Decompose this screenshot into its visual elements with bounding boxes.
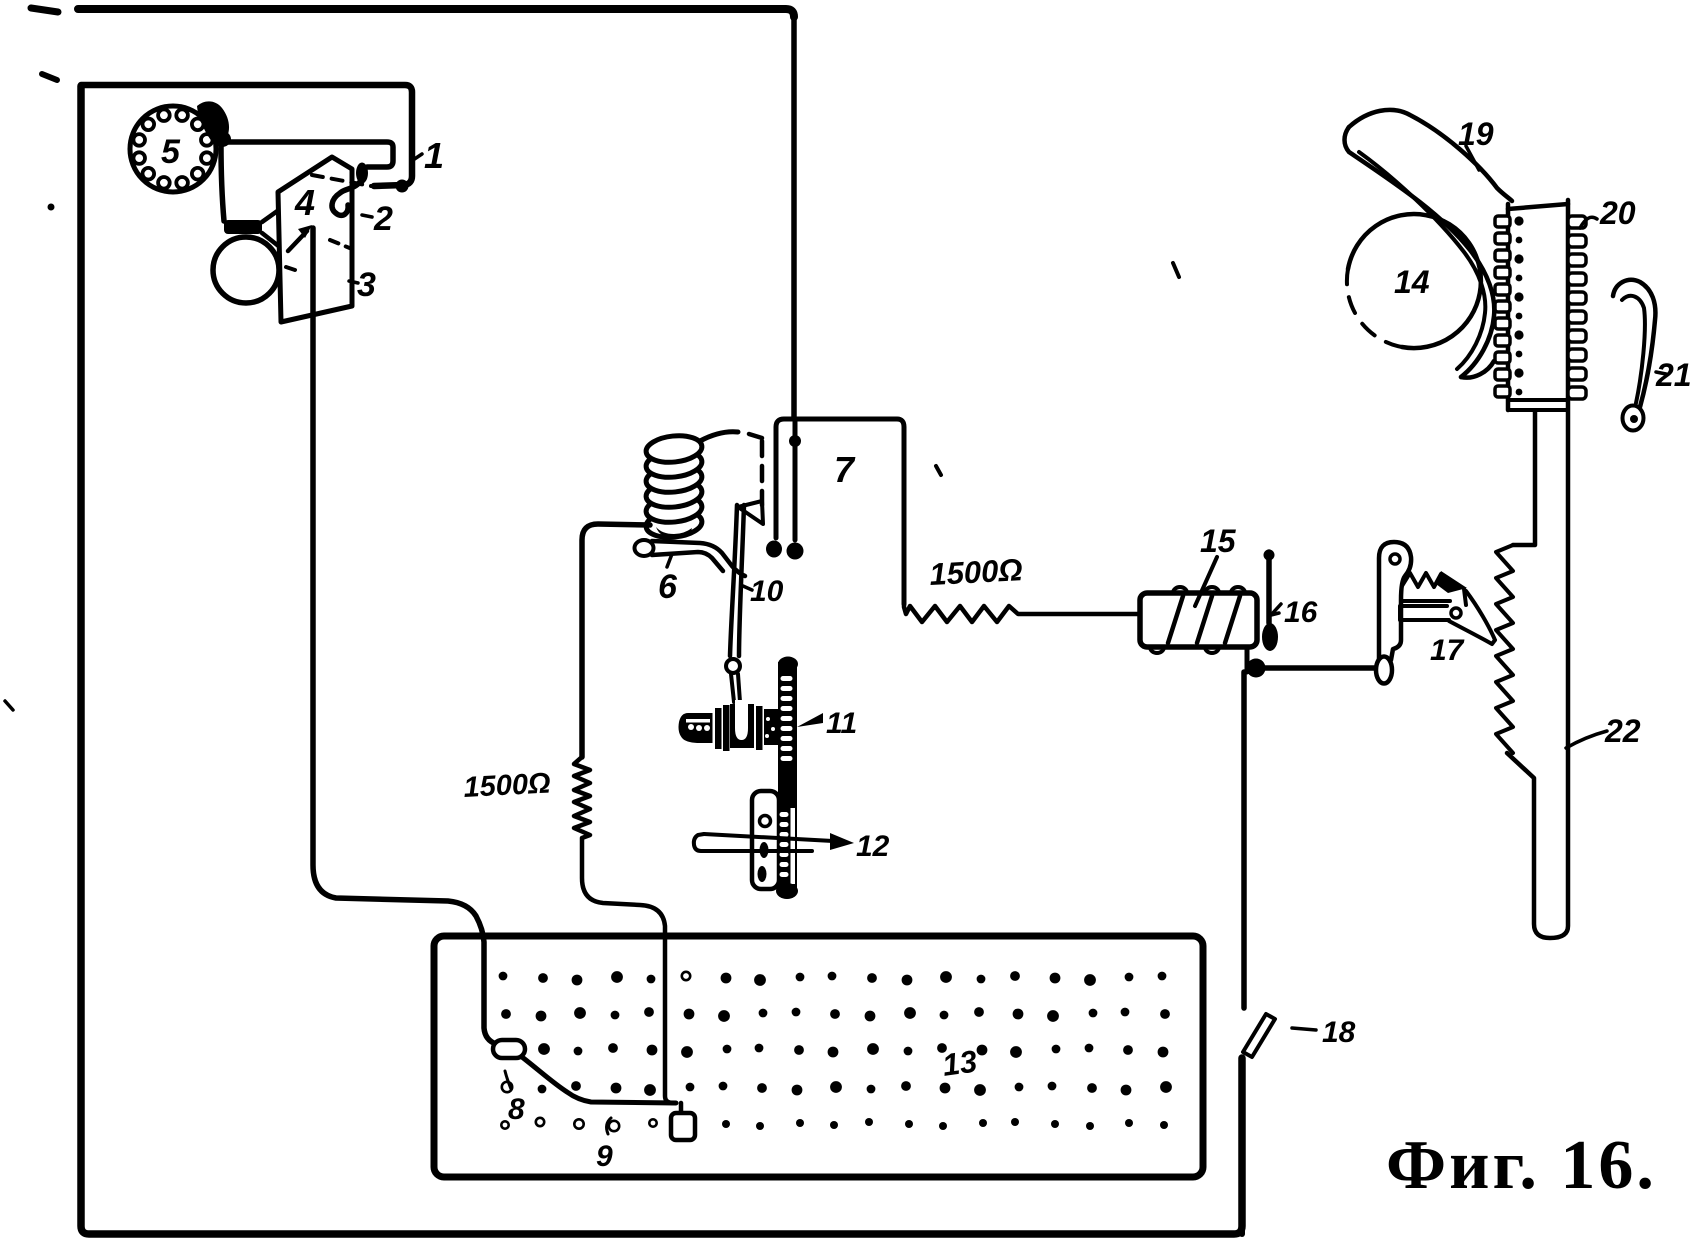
flag 18 xyxy=(1243,1014,1275,1057)
bar 12 lower line xyxy=(704,849,812,853)
svg-text:7: 7 xyxy=(834,449,856,490)
lever 17 lobe xyxy=(1379,542,1411,660)
svg-text:13: 13 xyxy=(940,1043,979,1082)
svg-text:16: 16 xyxy=(1284,596,1318,629)
speck near roll xyxy=(1173,263,1179,277)
wheel 5 rim xyxy=(130,106,216,192)
speck left dot xyxy=(48,204,55,211)
node terminal dot upper xyxy=(396,180,409,193)
node dot on stem xyxy=(789,435,801,447)
coil 15 windings xyxy=(1168,596,1240,643)
pawl 21 inner xyxy=(1622,296,1645,403)
coil 6 loops xyxy=(645,508,703,540)
svg-text:1500Ω: 1500Ω xyxy=(929,552,1024,592)
leader 11 arrow xyxy=(797,713,823,727)
hook 19 inner edge xyxy=(1359,152,1485,369)
shaft dark block speckles xyxy=(766,717,770,721)
leader 21 xyxy=(1656,372,1666,374)
pin 16 blob xyxy=(1262,623,1278,651)
bracket under coil xyxy=(635,540,654,556)
wire oval to bottom run xyxy=(522,1057,676,1103)
gear bar bottom cap xyxy=(776,883,798,899)
speck left dash xyxy=(42,74,57,80)
svg-text:1500Ω: 1500Ω xyxy=(463,767,552,804)
contact 7 left blob xyxy=(766,541,782,558)
shaft holder xyxy=(730,704,754,748)
hook 19 curl xyxy=(1461,361,1494,378)
wire plate to board xyxy=(313,228,496,1044)
leader 2 xyxy=(362,215,372,217)
svg-text:20: 20 xyxy=(1599,195,1636,231)
wire below flag xyxy=(1239,1058,1245,1234)
leader 10 xyxy=(743,586,752,590)
rod 22 neck left xyxy=(1513,412,1535,545)
rod 22 right edge xyxy=(1507,200,1568,938)
wire pawl to hammer xyxy=(221,145,224,221)
svg-text:6: 6 xyxy=(658,568,678,606)
leader 1 xyxy=(413,154,422,160)
wire junction to lever 17 xyxy=(1262,665,1376,671)
lever 10 ring xyxy=(726,659,740,673)
pin 16 top cap xyxy=(1264,550,1275,561)
bar 12 upper line xyxy=(704,834,833,841)
svg-text:3: 3 xyxy=(357,266,376,304)
dashed link to contact xyxy=(749,434,762,438)
shaft holder U slot xyxy=(735,700,748,740)
lever 10 lower xyxy=(731,674,740,702)
wire outer loop left-bottom xyxy=(81,86,1242,1234)
contact blob xyxy=(213,131,231,147)
lever 17 arm circle xyxy=(1451,608,1461,618)
leader 6 xyxy=(667,554,672,567)
plate hidden edge dashed xyxy=(312,175,371,186)
lever 17 foot oval xyxy=(1376,657,1392,684)
board 13 grid of dots xyxy=(499,972,508,981)
wire second rail with bracket 1 xyxy=(81,85,412,186)
worm 11 body xyxy=(679,713,715,743)
armature fork xyxy=(738,501,763,524)
leader 15 xyxy=(1195,557,1217,606)
leader 16 arrow xyxy=(1271,604,1281,615)
coil 6 top lead xyxy=(700,432,738,441)
plate 3 xyxy=(278,157,352,322)
contact 7 left branch xyxy=(776,419,794,538)
coil 15 body xyxy=(1140,593,1257,647)
svg-text:4: 4 xyxy=(294,182,315,223)
wire coil 15 down xyxy=(1245,647,1250,672)
svg-text:21: 21 xyxy=(1655,357,1690,393)
rack 20 left edge xyxy=(1506,204,1511,410)
node junction blob xyxy=(1247,659,1266,678)
wire coil to resistor xyxy=(582,524,650,757)
rod 22 ratchet teeth xyxy=(1496,545,1513,753)
wire 7 to resistor xyxy=(794,419,904,604)
svg-text:9: 9 xyxy=(596,1140,613,1173)
rack 20 bottom lines xyxy=(1508,400,1568,410)
leader 22 xyxy=(1566,731,1607,748)
worm 11 white notches xyxy=(688,724,694,730)
svg-text:12: 12 xyxy=(856,830,890,863)
worm collar separator xyxy=(713,705,716,750)
svg-text:22: 22 xyxy=(1604,713,1641,749)
gear bar lower white margin xyxy=(791,808,796,884)
plate 12 xyxy=(752,791,779,889)
speck top-left dash xyxy=(31,8,58,12)
gear bar top cap xyxy=(778,657,798,672)
plate lower dashed xyxy=(330,240,352,249)
rack 20 right teeth xyxy=(1568,216,1586,228)
lever 17 beak xyxy=(1449,591,1495,644)
lever 17 arm xyxy=(1400,606,1449,620)
shaft collar right xyxy=(756,706,763,750)
terminal square 9 xyxy=(679,1103,684,1113)
bar 12 arrowhead xyxy=(830,833,854,850)
svg-text:Фиг. 16.: Фиг. 16. xyxy=(1386,1127,1657,1204)
wire outer loop right upper xyxy=(1241,672,1247,1008)
svg-text:17: 17 xyxy=(1430,634,1465,667)
svg-text:8: 8 xyxy=(508,1093,525,1126)
resistor 1500 vertical and wire to board xyxy=(574,757,673,1103)
lever 17 spring right edge xyxy=(1464,589,1466,605)
shaft dark block xyxy=(764,709,778,745)
leader 9 xyxy=(607,1118,611,1134)
bar 12 left cap xyxy=(694,834,704,851)
shaft collar left 1 xyxy=(715,708,722,749)
svg-text:19: 19 xyxy=(1458,116,1494,152)
svg-text:18: 18 xyxy=(1322,1016,1356,1049)
gear bar body xyxy=(778,662,797,894)
plate 12 slots xyxy=(760,842,769,858)
hook 19 lower edge xyxy=(1345,127,1495,377)
pawl 21 pivot xyxy=(1623,406,1644,431)
leader 18 xyxy=(1292,1028,1316,1030)
svg-text:5: 5 xyxy=(161,133,181,171)
plate 12 hole xyxy=(760,816,771,827)
lever 17 pivot hole xyxy=(1390,554,1400,564)
hammer cone top xyxy=(262,207,283,222)
speck near 7 xyxy=(936,466,941,475)
gear bar upper white slots xyxy=(781,676,793,681)
svg-text:10: 10 xyxy=(750,575,784,608)
leader 3 xyxy=(349,281,358,283)
wire top-right vertical drop xyxy=(791,15,797,419)
plate small dash xyxy=(286,267,295,270)
terminal oval 8 xyxy=(493,1040,525,1058)
lever 17 spring xyxy=(1402,573,1448,587)
rack 20 left teeth xyxy=(1495,216,1510,227)
wire top rail xyxy=(78,9,794,17)
rack 20 perforations xyxy=(1514,216,1523,225)
lever 17 spring dark end xyxy=(1436,571,1467,593)
lever 10 rod xyxy=(730,505,744,656)
leader 20 xyxy=(1580,217,1597,228)
hammer cone bottom xyxy=(262,233,281,248)
hammer bar xyxy=(224,220,262,234)
pin 16 xyxy=(1266,552,1272,623)
board 13 outline xyxy=(434,936,1203,1177)
leader 8 xyxy=(505,1071,511,1089)
resistor 1500 horizontal xyxy=(904,604,1140,622)
lever 17 bar xyxy=(1402,599,1450,603)
contact spring 2 xyxy=(332,181,361,215)
contact 7 center stem xyxy=(793,419,798,540)
pawl on wheel 5 xyxy=(197,101,229,143)
pawl 21 outer xyxy=(1613,280,1655,407)
node terminal dot inner xyxy=(356,163,368,184)
speck left margin tick xyxy=(5,701,13,710)
leader 19 xyxy=(1466,146,1479,170)
coil 15 bumps xyxy=(1150,587,1245,653)
shaft collar left 2 xyxy=(723,705,730,751)
gear bar lower white slots xyxy=(780,812,789,817)
arrow on plate xyxy=(288,231,307,251)
roll 14 outline xyxy=(1348,214,1481,348)
ball xyxy=(213,237,279,303)
hook 19 upper edge xyxy=(1349,110,1512,201)
rack 20 top xyxy=(1508,204,1568,209)
svg-text:11: 11 xyxy=(826,707,857,740)
contact 7 center blob xyxy=(787,543,804,560)
wire inner bracket from wheel xyxy=(228,142,393,167)
svg-text:14: 14 xyxy=(1394,264,1430,300)
wheel 5 scallops xyxy=(176,109,188,121)
svg-text:15: 15 xyxy=(1200,523,1237,559)
svg-text:2: 2 xyxy=(373,200,393,238)
coil 6 base xyxy=(656,527,692,538)
svg-text:1: 1 xyxy=(424,135,444,176)
